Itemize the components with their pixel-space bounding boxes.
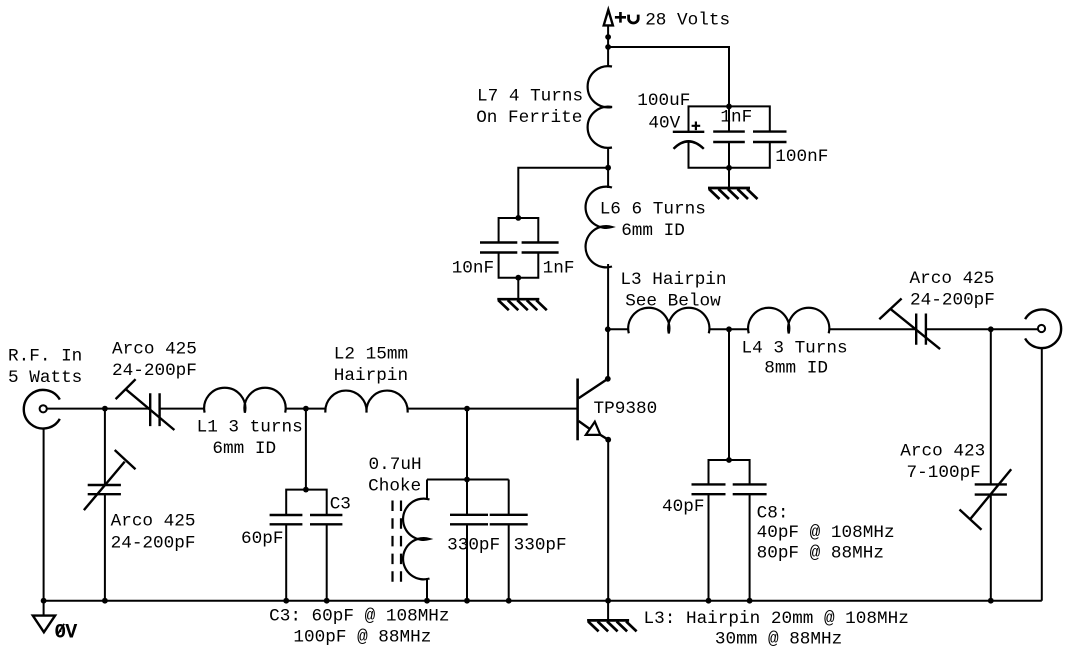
svg-text:Arco 425: Arco 425 [112, 340, 197, 360]
ground (emitter) [587, 601, 637, 632]
wire L7 to L6 [607, 147, 609, 188]
node base line / choke tap [464, 406, 470, 412]
svg-text:6mm ID: 6mm ID [621, 221, 685, 241]
wire L6 to collector node [607, 264, 609, 379]
node rail: 330pF left [464, 598, 470, 604]
svg-text:60pF: 60pF [241, 529, 283, 549]
ground (decoupling bank) [708, 168, 758, 199]
svg-text:30mm @ 88MHz: 30mm @ 88MHz [715, 630, 842, 649]
node decoupling bottom [726, 165, 732, 171]
capacitor 330pF (left) [447, 515, 500, 601]
svg-text:L4 3 Turns: L4 3 Turns [742, 338, 848, 358]
wire emitter to ground rail [607, 440, 609, 601]
wire input connector to ground rail [43, 428, 45, 601]
ground rail 0V [44, 600, 1042, 602]
svg-text:330pF: 330pF [514, 536, 567, 556]
svg-text:1nF: 1nF [543, 259, 575, 279]
node rail: 330pF right [506, 598, 512, 604]
svg-text:10nF: 10nF [452, 259, 494, 279]
connector R.F. output [1025, 310, 1061, 349]
node C3 top [303, 487, 309, 493]
svg-text:On Ferrite: On Ferrite [476, 108, 582, 128]
svg-text:0.7uH: 0.7uH [369, 455, 422, 475]
node L3/L4/C8 [726, 326, 732, 332]
svg-text:L1 3 turns: L1 3 turns [197, 418, 303, 438]
svg-text:Arco 425: Arco 425 [910, 269, 995, 289]
inductor L4 3 Turns 8mm ID [742, 308, 848, 379]
inductor L6 6 Turns [586, 187, 706, 268]
node emitter dot [605, 437, 611, 443]
node input junction [102, 406, 108, 412]
transistor Q1 TP9380 [578, 379, 658, 441]
ground (bypass caps) [497, 278, 547, 311]
node rail: C3 [324, 598, 330, 604]
svg-text:330pF: 330pF [447, 536, 500, 556]
svg-text:24-200pF: 24-200pF [112, 361, 197, 381]
svg-text:28 Volts: 28 Volts [645, 10, 730, 30]
wire choke tap down [466, 409, 468, 515]
node rail: 60pF [283, 598, 289, 604]
capacitor 100nF decoupling [729, 106, 828, 167]
svg-text:L2 15mm: L2 15mm [334, 345, 408, 365]
svg-text:C3: C3 [330, 495, 351, 515]
svg-text:100nF: 100nF [775, 147, 828, 167]
wire L1 to L2 [285, 408, 325, 410]
svg-text:24-200pF: 24-200pF [111, 534, 196, 554]
capacitor 330pF (right) [490, 480, 567, 601]
svg-text:40pF: 40pF [662, 497, 704, 517]
wire L3 to node [709, 328, 729, 330]
node output / Arco 423 tap [988, 326, 994, 332]
wire node to L4 [729, 328, 749, 330]
wire input line to series trimmer [47, 408, 150, 410]
svg-text:1nF: 1nF [720, 108, 752, 128]
svg-text:Hairpin: Hairpin [334, 366, 408, 386]
wire series trimmer to L1 [160, 408, 205, 410]
svg-text:40V: 40V [648, 114, 680, 134]
svg-text:24-200pF: 24-200pF [910, 291, 995, 311]
svg-text:7-100pF: 7-100pF [907, 463, 981, 483]
node L7/L6 bypass junction [605, 165, 611, 171]
ground 0V symbol [33, 601, 78, 645]
node rail: input shunt trimmer [102, 598, 108, 604]
node collector / L3 tap [605, 326, 611, 332]
svg-text:100uF: 100uF [637, 91, 690, 111]
node decoupling top [726, 104, 732, 110]
svg-text:C3: 60pF @ 108MHz: C3: 60pF @ 108MHz [269, 606, 449, 626]
wire L4 to output trimmer [829, 328, 917, 330]
svg-text:TP9380: TP9380 [594, 399, 658, 419]
capacitor 10nF bypass [452, 218, 519, 279]
node L1/L2/C3 [303, 406, 309, 412]
svg-text:L3 Hairpin: L3 Hairpin [620, 270, 726, 290]
svg-text:80pF @ 88MHz: 80pF @ 88MHz [757, 544, 884, 564]
trimmer Arco 423 7-100pF (output shunt) [900, 329, 1011, 600]
node bypass top [515, 215, 521, 221]
capacitor 60pF (C3 left) [241, 490, 306, 601]
svg-text:L6 6 Turns: L6 6 Turns [600, 200, 706, 220]
inductor L1 3 turns 6mm ID [197, 388, 303, 459]
choke 0.7uH coil [368, 455, 429, 601]
wire node to output connector [991, 328, 1038, 330]
inductor L3 Hairpin [620, 270, 726, 333]
wire L2 to transistor base [408, 408, 578, 410]
capacitor 1nF decoupling [713, 106, 752, 167]
svg-text:8mm ID: 8mm ID [764, 359, 828, 379]
svg-text:L7 4 Turns: L7 4 Turns [477, 87, 583, 107]
wire C3 node down [305, 409, 307, 490]
node rail: 40pF [706, 598, 712, 604]
svg-text:See Below: See Below [625, 292, 721, 312]
node collector dot [605, 376, 611, 382]
svg-text:R.F. In: R.F. In [8, 347, 82, 367]
inductor L7 4 Turns On Ferrite [476, 66, 612, 148]
svg-text:Arco 425: Arco 425 [111, 512, 196, 532]
svg-text:Choke: Choke [368, 477, 421, 497]
capacitor C3 (right) [306, 490, 351, 601]
node rail: C8 [747, 598, 753, 604]
wire junction to bypass caps [518, 168, 608, 218]
node rail: emitter [605, 598, 611, 604]
svg-text:C8:: C8: [757, 503, 789, 523]
node rail: Arco 423 [988, 598, 994, 604]
wire V+ to decoupling bank [608, 47, 729, 106]
capacitor 100uF 40V electrolytic [637, 91, 729, 168]
node rail: input connector [41, 598, 47, 604]
node C8 top [726, 457, 732, 463]
wire L3/L4 node down to C8 [728, 329, 730, 460]
trimmer Arco 425 24-200pF (output series) [879, 269, 995, 349]
wire L3 line from node [608, 328, 629, 330]
svg-text:5 Watts: 5 Watts [8, 368, 82, 388]
node V+ (two junction dots) [605, 34, 611, 40]
connector R.F. input 5 Watts [8, 347, 82, 429]
trimmer Arco 425 24-200pF (input series) [112, 340, 197, 430]
svg-text:6mm ID: 6mm ID [212, 439, 276, 459]
capacitor 40pF (C8 left) [662, 460, 729, 601]
node rail: choke [424, 598, 430, 604]
wire output connector to ground rail [1041, 348, 1043, 601]
wire choke rail [427, 479, 509, 481]
inductor L2 15mm Hairpin [325, 345, 408, 413]
capacitor 1nF bypass [518, 218, 574, 279]
power +U 28 Volts supply arrow [604, 10, 730, 67]
capacitor C8 (right) [729, 460, 895, 601]
node bypass bottom [515, 275, 521, 281]
svg-text:Arco 423: Arco 423 [900, 442, 985, 462]
node choke rail [464, 477, 470, 483]
svg-text:40pF @ 108MHz: 40pF @ 108MHz [757, 523, 895, 543]
wire trimmer to output node [926, 328, 991, 330]
svg-text:L3: Hairpin 20mm @ 108MHz: L3: Hairpin 20mm @ 108MHz [644, 609, 909, 629]
trimmer Arco 425 24-200pF (input shunt) [84, 409, 196, 601]
svg-text:100pF @ 88MHz: 100pF @ 88MHz [293, 628, 431, 648]
